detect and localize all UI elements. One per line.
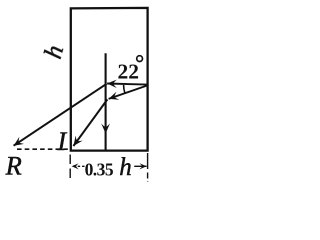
svg-text:I: I [56,127,67,156]
svg-text:h: h [119,154,132,181]
svg-text:0.35: 0.35 [85,159,114,179]
svg-text:h: h [40,42,69,61]
svg-text:R: R [5,151,22,181]
svg-text:22: 22 [117,59,139,83]
